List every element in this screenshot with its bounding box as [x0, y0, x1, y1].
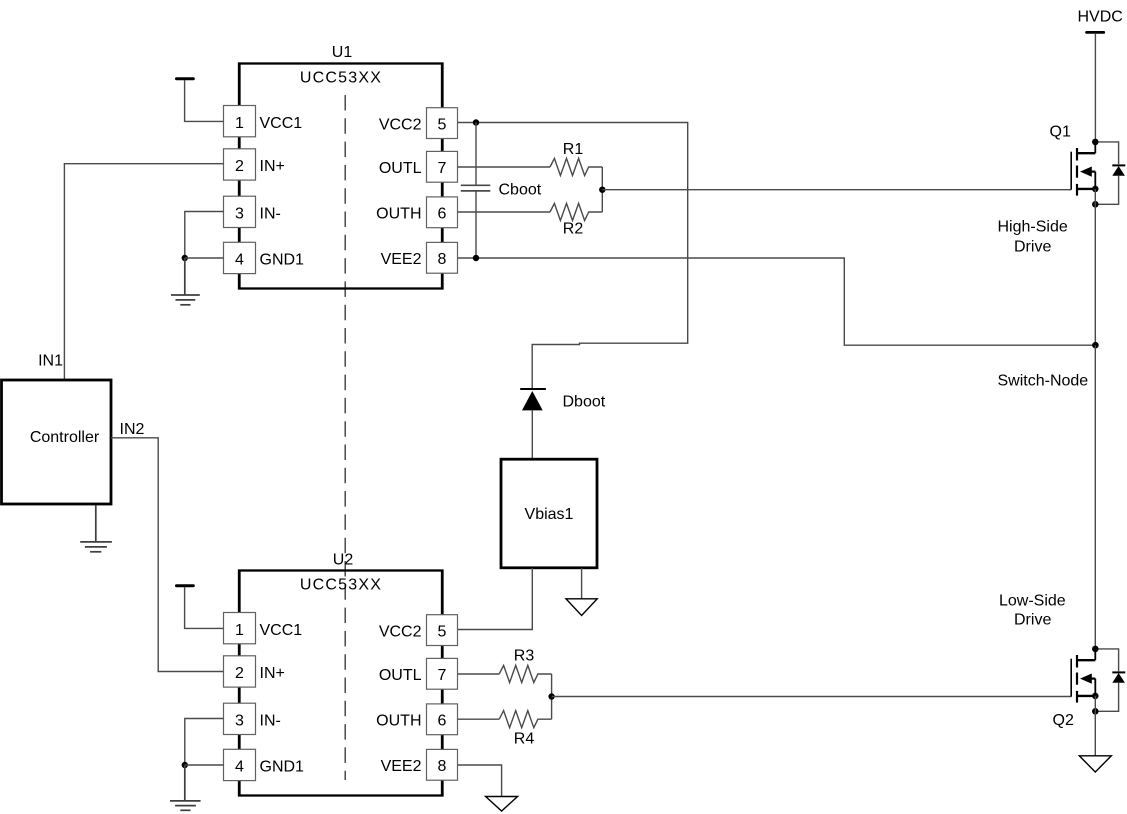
pin 1 U2 — [224, 613, 303, 644]
node gate Q1 junction — [599, 187, 605, 193]
diode Dboot — [520, 389, 606, 459]
svg-text:2: 2 — [235, 665, 244, 682]
IC U1 UCC53XX gate driver — [239, 44, 443, 289]
isolation barrier dashed line — [344, 95, 346, 780]
svg-text:VCC1: VCC1 — [260, 115, 303, 132]
node Q2 diode junction — [1092, 708, 1099, 715]
ground VEE2 U2 — [486, 797, 518, 812]
svg-text:Dboot: Dboot — [563, 394, 606, 411]
IC U2 UCC53XX gate driver — [239, 552, 443, 796]
voltage source Vbias1 — [501, 459, 597, 568]
pin 7 U2 — [379, 658, 458, 689]
ground Vbias1 — [566, 599, 597, 616]
svg-text:GND1: GND1 — [260, 252, 305, 269]
svg-text:U2: U2 — [333, 552, 354, 569]
wire pin4 U1 — [185, 257, 224, 259]
svg-text:U1: U1 — [332, 44, 353, 61]
wire Cboot bottom — [475, 192, 477, 259]
node Q1 diode junction — [1092, 201, 1099, 208]
wire IN- U2 to GND1 — [185, 719, 224, 766]
svg-text:R1: R1 — [563, 141, 584, 158]
svg-text:R2: R2 — [563, 221, 584, 238]
svg-text:GND1: GND1 — [260, 759, 305, 776]
IC U2 body edge segments — [240, 571, 443, 795]
svg-text:IN-: IN- — [260, 712, 281, 729]
wire R1-R2 connector — [601, 167, 603, 212]
svg-text:Switch-Node: Switch-Node — [998, 373, 1089, 390]
ground GND1 U1 — [171, 258, 200, 305]
svg-text:UCC53XX: UCC53XX — [300, 70, 382, 87]
transistor Q2 — [1053, 649, 1096, 729]
svg-text:Drive: Drive — [1014, 612, 1051, 629]
node VCC2 junction — [473, 119, 479, 125]
diode body Q2 — [1095, 649, 1125, 711]
svg-text:OUTL: OUTL — [379, 667, 422, 684]
ground controller — [80, 506, 112, 552]
wire VEE2 U1 to switch node — [458, 258, 1096, 345]
svg-text:6: 6 — [438, 713, 447, 730]
wire HVDC to Q1 drain — [1094, 34, 1096, 142]
svg-text:1: 1 — [235, 115, 244, 132]
svg-text:Q2: Q2 — [1053, 712, 1074, 729]
svg-text:VEE2: VEE2 — [381, 251, 422, 268]
svg-text:1: 1 — [235, 622, 244, 639]
wire gate drive Q2 — [552, 696, 1072, 698]
resistor R1 — [550, 158, 602, 175]
svg-text:R3: R3 — [514, 648, 535, 665]
pin 5 U1 — [379, 108, 458, 139]
svg-text:5: 5 — [438, 623, 447, 640]
node GND1 junction — [182, 255, 188, 261]
wire OUTH U2 — [458, 718, 500, 720]
svg-text:IN+: IN+ — [260, 665, 285, 682]
wire OUTL U1 — [458, 166, 551, 168]
capacitor Cboot — [461, 185, 491, 191]
pin 1 U1 — [224, 106, 303, 137]
svg-text:4: 4 — [235, 252, 244, 269]
svg-text:Q1: Q1 — [1050, 124, 1071, 141]
svg-text:7: 7 — [438, 160, 447, 177]
svg-text:Vbias1: Vbias1 — [525, 506, 574, 523]
svg-text:Cboot: Cboot — [499, 182, 542, 199]
svg-text:VCC1: VCC1 — [260, 622, 303, 639]
node Q1 drain — [1092, 139, 1099, 146]
svg-text:VCC2: VCC2 — [379, 623, 422, 640]
resistor R3 — [499, 665, 551, 682]
svg-text:R4: R4 — [514, 731, 535, 748]
pin 8 U2 — [381, 749, 458, 780]
svg-text:8: 8 — [438, 251, 447, 268]
wire IN+ U1 to controller (IN1 net) — [64, 164, 223, 380]
wire switch node to Q2 drain — [1094, 345, 1096, 649]
ground Q2 — [1079, 756, 1111, 772]
resistor R2 — [550, 203, 602, 220]
ground GND1 U2 — [170, 765, 201, 810]
pin 2 U2 — [224, 656, 285, 687]
svg-text:4: 4 — [235, 759, 244, 776]
wire Q1 source to switch node — [1094, 189, 1096, 345]
diode body Q1 — [1095, 142, 1125, 204]
node VEE2 junction — [473, 255, 479, 261]
svg-text:IN1: IN1 — [38, 353, 63, 370]
wire Vbias1 ground lead — [581, 568, 583, 599]
pin 4 U2 — [224, 749, 305, 780]
wire VEE2 U2 to ground — [458, 765, 502, 797]
svg-text:2: 2 — [235, 158, 244, 175]
svg-text:High-Side: High-Side — [998, 219, 1068, 236]
node Q2 drain — [1092, 646, 1099, 653]
pin 3 U1 — [224, 196, 281, 227]
svg-text:UCC53XX: UCC53XX — [300, 577, 382, 594]
node Q2 source — [1092, 693, 1099, 700]
svg-text:Controller: Controller — [30, 429, 100, 446]
svg-text:Drive: Drive — [1014, 239, 1051, 256]
resistor R4 — [499, 711, 551, 728]
pin 4 U1 — [224, 242, 305, 273]
node GND1 U2 junction — [182, 762, 188, 768]
wire gate drive Q1 — [602, 189, 1071, 191]
wire IN2 controller to U2 — [111, 438, 224, 672]
wire IN- U1 to GND1 — [185, 212, 224, 259]
transistor Q1 — [1050, 124, 1096, 196]
svg-text:5: 5 — [438, 116, 447, 133]
IC U1 body edge segments — [240, 64, 443, 288]
wire OUTH U1 — [458, 211, 551, 213]
wire Cboot top — [475, 123, 477, 185]
node Switch-Node — [1092, 342, 1099, 349]
svg-text:VEE2: VEE2 — [381, 758, 422, 775]
wire Vbias1 to U2 VCC2 — [458, 568, 533, 630]
wire Q2 source to ground — [1094, 696, 1096, 756]
node Q1 source — [1092, 186, 1099, 193]
svg-text:OUTH: OUTH — [376, 206, 421, 223]
svg-text:8: 8 — [438, 758, 447, 775]
svg-text:7: 7 — [438, 667, 447, 684]
wire VCC2 U1 bootstrap — [458, 123, 688, 389]
wire pin4 U2 — [185, 764, 224, 766]
pin 2 U1 — [224, 149, 285, 180]
svg-text:IN+: IN+ — [260, 158, 285, 175]
pin 6 U2 — [376, 704, 457, 735]
svg-text:3: 3 — [235, 712, 244, 729]
svg-text:6: 6 — [438, 206, 447, 223]
pin 7 U1 — [379, 151, 458, 182]
svg-text:Low-Side: Low-Side — [999, 593, 1066, 610]
pin 3 U2 — [224, 703, 281, 734]
node gate Q2 junction — [548, 693, 554, 699]
controller box — [2, 380, 112, 504]
pin 8 U1 — [381, 242, 458, 273]
wire R3-R4 connector — [551, 674, 553, 719]
svg-text:IN-: IN- — [260, 205, 281, 222]
VCC1 supply stub U1 — [177, 79, 224, 122]
VCC1 supply stub U2 — [177, 586, 224, 629]
svg-text:IN2: IN2 — [120, 421, 145, 438]
svg-text:OUTL: OUTL — [379, 160, 422, 177]
svg-text:HVDC: HVDC — [1078, 9, 1123, 26]
wire OUTL U2 — [458, 673, 500, 675]
svg-text:VCC2: VCC2 — [379, 116, 422, 133]
pin 6 U1 — [376, 197, 457, 228]
pin 5 U2 — [379, 615, 458, 646]
svg-text:3: 3 — [235, 205, 244, 222]
svg-text:OUTH: OUTH — [376, 713, 421, 730]
